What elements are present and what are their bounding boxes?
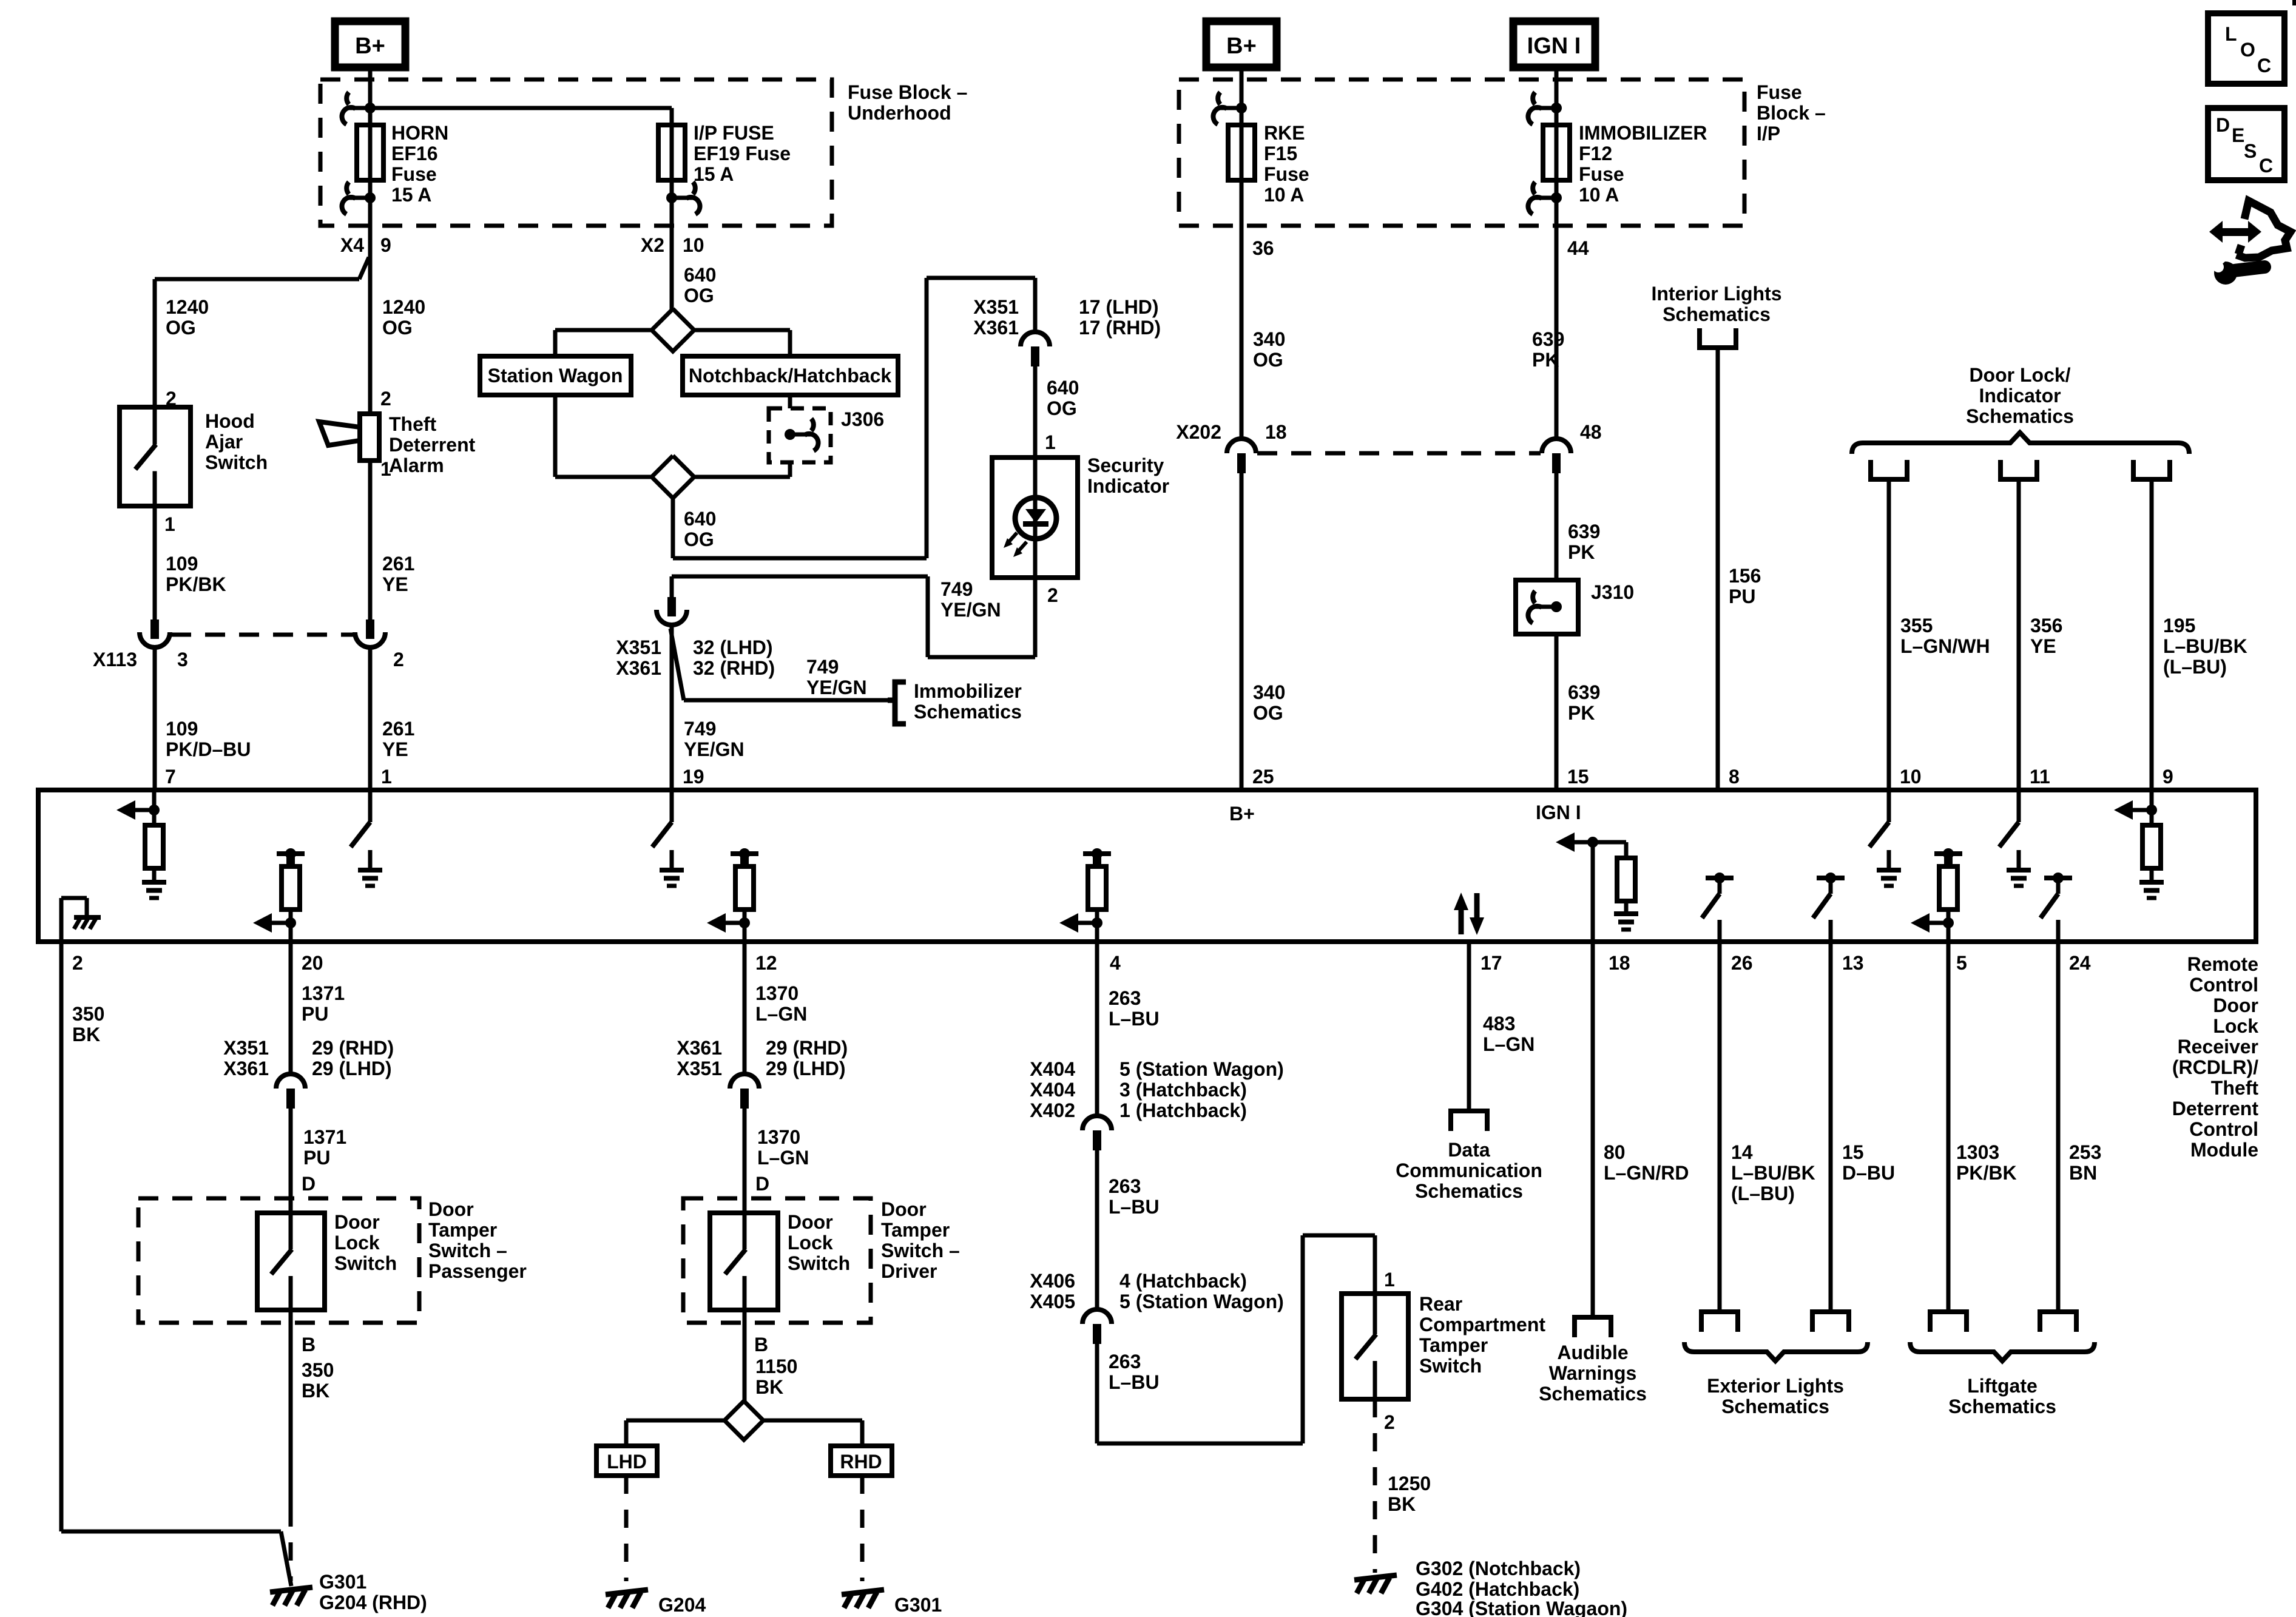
svg-text:Tamper: Tamper	[881, 1219, 950, 1241]
connector hook RKE fuse top	[1213, 92, 1241, 124]
connector X202 pin 48	[1542, 439, 1571, 473]
label Rear Compartment Tamper Switch	[1419, 1293, 1545, 1377]
svg-text:36: 36	[1252, 237, 1274, 259]
svg-text:Remote: Remote	[2187, 953, 2258, 975]
pin 20 module	[302, 952, 323, 974]
label J310	[1591, 581, 1634, 603]
svg-text:Ajar: Ajar	[205, 431, 243, 453]
svg-text:X405: X405	[1030, 1291, 1075, 1312]
svg-text:OG: OG	[684, 528, 714, 550]
pin 1 security indicator	[1045, 431, 1056, 453]
svg-text:X402: X402	[1030, 1099, 1075, 1121]
svg-text:B: B	[754, 1334, 768, 1355]
wire label 356 YE	[2030, 615, 2062, 657]
svg-text:749: 749	[940, 578, 973, 600]
svg-text:1240: 1240	[166, 296, 209, 318]
wire diamond to Notchback box	[694, 330, 790, 356]
svg-text:1371: 1371	[302, 982, 345, 1004]
svg-text:340: 340	[1253, 328, 1285, 350]
wire X202-18 to module pin 25	[1240, 473, 1244, 790]
wire label 639 PK lower	[1568, 681, 1600, 724]
wire label 749 YE/GN at indicator	[940, 578, 1001, 621]
wire X113-3 to module pin 7	[153, 649, 157, 790]
svg-text:11: 11	[2030, 766, 2050, 788]
svg-text:2: 2	[380, 388, 391, 410]
svg-text:48: 48	[1580, 421, 1602, 443]
wire label 263 L-BU middle	[1109, 1175, 1160, 1218]
svg-text:Passenger: Passenger	[428, 1260, 527, 1282]
label Audible Warnings Schematics	[1539, 1342, 1647, 1405]
wire label 1240 OG right	[382, 296, 425, 339]
svg-text:Lock: Lock	[788, 1232, 833, 1254]
svg-text:20: 20	[302, 952, 323, 974]
connector X404/X402	[1082, 1116, 1112, 1150]
pin 26 module	[1731, 952, 1753, 974]
wire label 350 BK passenger	[302, 1359, 334, 1402]
svg-text:L–GN: L–GN	[1483, 1033, 1535, 1055]
dashed connector line X202	[1257, 451, 1541, 456]
svg-text:X113: X113	[93, 649, 137, 670]
wire label 15 D-BU	[1842, 1141, 1895, 1184]
pin 2 security indicator	[1047, 584, 1058, 606]
wire label 640 OG at indicator	[1047, 377, 1079, 419]
wire to module pin 11	[2017, 482, 2021, 790]
wire pin 20 down	[289, 942, 293, 1074]
svg-text:7: 7	[165, 766, 176, 788]
svg-text:14: 14	[1731, 1141, 1753, 1163]
security indicator box	[992, 457, 1078, 578]
junction dot at HORN fuse top	[365, 103, 376, 113]
wire door lock switch passenger down	[289, 1310, 293, 1508]
svg-text:9: 9	[380, 234, 391, 256]
svg-text:Schematics: Schematics	[914, 701, 1022, 723]
svg-text:X4: X4	[340, 234, 364, 256]
wire security indicator to X351-32	[672, 576, 1035, 657]
connector hook below I/P fuse	[672, 182, 700, 214]
label B+ inside module	[1229, 803, 1255, 825]
svg-text:Alarm: Alarm	[389, 454, 444, 476]
DESC reference box	[2208, 108, 2284, 180]
module internal pin 11 switch	[1999, 790, 2031, 886]
svg-text:Control: Control	[2189, 1118, 2258, 1140]
wire label 340 OG upper	[1253, 328, 1285, 371]
pin label X2 10	[641, 234, 704, 256]
svg-text:Indicator: Indicator	[1979, 385, 2061, 407]
wire B+ to junction	[368, 67, 373, 125]
pin 12 module	[755, 952, 777, 974]
pointer cup pin 5	[1930, 1312, 1967, 1332]
svg-text:1: 1	[1045, 431, 1056, 453]
label Liftgate Schematics	[1948, 1375, 2056, 1417]
module internal pin 10 switch	[1869, 790, 1901, 886]
svg-text:Schematics: Schematics	[1415, 1180, 1523, 1202]
svg-text:5 (Station Wagon): 5 (Station Wagon)	[1119, 1058, 1284, 1080]
label X202	[1176, 421, 1221, 443]
svg-text:B+: B+	[355, 33, 385, 59]
wire label 109 PK/D-BU	[166, 718, 251, 760]
wire X113-2 to module pin 1	[368, 649, 373, 790]
svg-text:Deterrent: Deterrent	[2172, 1098, 2259, 1119]
wire label 350 BK pin2	[72, 1003, 104, 1045]
svg-text:263: 263	[1109, 987, 1141, 1009]
svg-text:X351: X351	[677, 1058, 722, 1079]
svg-text:OG: OG	[684, 285, 714, 306]
wire label 195 L-BU/BK (L-BU)	[2163, 615, 2247, 678]
svg-text:3: 3	[177, 649, 188, 670]
svg-text:18: 18	[1609, 952, 1630, 974]
svg-text:L–BU: L–BU	[1109, 1196, 1160, 1218]
wire label 156 PU	[1729, 565, 1761, 607]
svg-text:G304 (Station Wagaon): G304 (Station Wagaon)	[1416, 1598, 1627, 1617]
svg-text:Tamper: Tamper	[428, 1219, 497, 1241]
svg-text:32 (LHD): 32 (LHD)	[693, 636, 773, 658]
pin 9 module	[2163, 766, 2173, 788]
wire label 640 OG	[684, 264, 716, 306]
ground G302 G402 G304	[1354, 1575, 1397, 1593]
label X351 X361 at pin 32	[616, 636, 661, 679]
svg-text:1: 1	[164, 513, 175, 535]
label I/P FUSE EF19 Fuse 15 A	[694, 122, 791, 185]
svg-text:X351: X351	[223, 1037, 269, 1059]
connector hook at HORN fuse top	[342, 92, 370, 124]
pointer cup pin 26	[1701, 1312, 1738, 1332]
svg-text:1303: 1303	[1956, 1141, 1999, 1163]
svg-text:10: 10	[1900, 766, 1922, 788]
svg-text:L–GN: L–GN	[755, 1003, 807, 1025]
module internal pin 12 resistor	[707, 848, 758, 942]
wire IMMOBILIZER fuse to X202-48	[1555, 180, 1559, 439]
svg-text:BN: BN	[2069, 1162, 2097, 1184]
splice diamond LHD RHD	[724, 1401, 763, 1440]
svg-text:Fuse: Fuse	[391, 163, 437, 185]
svg-text:BK: BK	[1388, 1493, 1416, 1515]
svg-text:640: 640	[1047, 377, 1079, 399]
pointer cup audible warnings	[1575, 1317, 1611, 1337]
module internal pin 19 switch	[652, 790, 684, 886]
svg-text:RHD: RHD	[840, 1451, 882, 1473]
svg-text:109: 109	[166, 553, 198, 575]
svg-text:1 (Hatchback): 1 (Hatchback)	[1119, 1099, 1247, 1121]
svg-text:1: 1	[1384, 1269, 1395, 1291]
svg-text:OG: OG	[166, 317, 196, 339]
svg-text:Schematics: Schematics	[1539, 1383, 1647, 1405]
dashed wire RHD to G301	[860, 1476, 865, 1581]
connector X351/X361 pin 32	[657, 597, 687, 625]
junction dot J306	[785, 429, 795, 440]
svg-text:639: 639	[1568, 681, 1600, 703]
svg-text:261: 261	[382, 553, 414, 575]
svg-text:PU: PU	[303, 1147, 330, 1169]
wire diamond to RHD box	[763, 1420, 862, 1446]
door tamper switch passenger dashed box	[138, 1198, 419, 1323]
wire pin 13 down	[1829, 942, 1833, 1312]
pin label X4 9	[340, 234, 391, 256]
wire X351-32 to module pin 19	[670, 627, 674, 790]
label Fuse Block - I/P	[1757, 81, 1826, 144]
svg-text:12: 12	[755, 952, 777, 974]
svg-text:Fuse Block –: Fuse Block –	[848, 81, 967, 103]
wire junction to I/P fuse	[370, 108, 672, 125]
pin 17 module	[1481, 952, 1502, 974]
svg-text:Block –: Block –	[1757, 102, 1826, 124]
door lock switch passenger	[257, 1213, 325, 1310]
svg-text:5 (Station Wagon): 5 (Station Wagon)	[1119, 1291, 1284, 1312]
svg-text:Audible: Audible	[1557, 1342, 1628, 1363]
svg-text:(L–BU): (L–BU)	[2163, 656, 2227, 678]
branch to immobilizer schematics	[670, 629, 888, 700]
svg-text:Compartment: Compartment	[1419, 1314, 1545, 1335]
svg-text:OG: OG	[1253, 349, 1283, 371]
branch box Notchback/Hatchback	[683, 356, 898, 395]
svg-text:X404: X404	[1030, 1079, 1075, 1101]
svg-text:Schematics: Schematics	[1948, 1396, 2056, 1417]
connector hook J306	[790, 419, 819, 451]
svg-text:X361: X361	[973, 317, 1019, 339]
module internal pin 9 arrow resistor ground	[2114, 790, 2164, 898]
svg-text:2: 2	[1384, 1411, 1395, 1433]
svg-text:Door Lock/: Door Lock/	[1969, 364, 2070, 386]
connector X361/X351 pin 29 driver	[730, 1074, 759, 1109]
svg-text:15 A: 15 A	[391, 184, 431, 206]
svg-text:Door: Door	[2213, 994, 2258, 1016]
wire J310 to module pin 15	[1555, 634, 1559, 790]
label J306	[841, 408, 884, 430]
module internal pin 26 blade	[1702, 873, 1734, 942]
wire X2-10 to diamond	[670, 198, 674, 311]
connector X351/X361 pin 17	[1021, 332, 1050, 366]
svg-text:(L–BU): (L–BU)	[1731, 1183, 1795, 1204]
pin 1 hood ajar switch	[164, 513, 175, 535]
svg-text:80: 80	[1604, 1141, 1626, 1163]
wire label 263 L-BU lower	[1109, 1351, 1160, 1393]
label 29 RHD LHD passenger	[312, 1037, 394, 1079]
svg-text:YE/GN: YE/GN	[806, 677, 867, 698]
wire Notchback to J306	[788, 395, 792, 408]
svg-text:X406: X406	[1030, 1270, 1075, 1292]
label Data Communication Schematics	[1396, 1139, 1542, 1202]
wire door lock switch driver to diamond	[743, 1310, 747, 1402]
pin 18 X202	[1265, 421, 1287, 443]
LOC reference box	[2208, 13, 2284, 84]
junction dot below HORN fuse	[365, 192, 376, 203]
junction dot RKE fuse top	[1236, 103, 1247, 113]
svg-text:PK: PK	[1568, 541, 1595, 563]
svg-text:1370: 1370	[757, 1126, 800, 1148]
pin 2 X113	[393, 649, 404, 670]
svg-text:L–BU: L–BU	[1109, 1008, 1160, 1030]
pin 13 module	[1842, 952, 1864, 974]
svg-text:Door: Door	[334, 1211, 380, 1233]
wire label 253 BN	[2069, 1141, 2101, 1184]
svg-text:X2: X2	[641, 234, 664, 256]
svg-text:(RCDLR)/: (RCDLR)/	[2172, 1056, 2258, 1078]
wire diamond to LHD box	[626, 1420, 724, 1446]
svg-text:X351: X351	[616, 636, 661, 658]
svg-text:1240: 1240	[382, 296, 425, 318]
label G302 G402 G304	[1416, 1558, 1627, 1617]
label G301 G204 (RHD)	[319, 1571, 427, 1613]
wire label 355 L-GN/WH	[1900, 615, 1990, 657]
power symbol B+ (battery feed, fuse block underhood)	[335, 21, 405, 67]
wire label 483 L-GN	[1483, 1013, 1535, 1055]
svg-text:G204 (RHD): G204 (RHD)	[319, 1592, 427, 1613]
label X113	[93, 649, 137, 670]
svg-text:X202: X202	[1176, 421, 1221, 443]
wire label 109 PK/BK	[166, 553, 226, 595]
svg-text:1371: 1371	[303, 1126, 346, 1148]
svg-text:Underhood: Underhood	[848, 102, 951, 124]
splice J306 dashed box	[769, 408, 831, 462]
svg-text:350: 350	[302, 1359, 334, 1381]
junction dot below I/P fuse	[666, 192, 677, 203]
svg-text:639: 639	[1532, 328, 1564, 350]
svg-text:5: 5	[1956, 952, 1967, 974]
svg-text:G204: G204	[658, 1594, 706, 1616]
label Hood Ajar Switch	[205, 410, 268, 473]
svg-text:Indicator: Indicator	[1087, 475, 1169, 497]
wire Station Wagon to diamond lower	[555, 395, 652, 477]
svg-text:X351: X351	[973, 296, 1019, 318]
wire RKE fuse to X202-18	[1240, 180, 1244, 439]
module internal pin 1 switch	[351, 790, 382, 886]
svg-text:Rear: Rear	[1419, 1293, 1462, 1315]
label HORN EF16 Fuse 15 A	[391, 122, 448, 206]
pin 1 rear tamper switch	[1384, 1269, 1395, 1291]
svg-text:1150: 1150	[755, 1355, 797, 1377]
svg-text:Fuse: Fuse	[1264, 163, 1309, 185]
module internal pin 4 resistor	[1059, 848, 1111, 942]
wire label 749 YE/GN immobilizer	[806, 656, 867, 698]
label 29 RHD LHD driver	[766, 1037, 848, 1079]
fuse IMMOBILIZER F12 10A	[1543, 125, 1570, 180]
svg-text:1: 1	[381, 766, 392, 788]
fuse RKE F15 10A	[1228, 125, 1255, 180]
label Theft Deterrent Alarm	[389, 413, 476, 476]
wire label 749 YE/GN lower	[684, 718, 745, 760]
svg-text:263: 263	[1109, 1351, 1141, 1372]
wire pin 17 down	[1467, 942, 1471, 1111]
wire pin 24 down	[2056, 942, 2061, 1312]
svg-text:44: 44	[1567, 237, 1589, 259]
svg-text:IGN I: IGN I	[1527, 33, 1581, 59]
wire label 1370 L-GN upper	[755, 982, 807, 1025]
hand pointer icon	[2237, 201, 2291, 258]
label G204	[658, 1594, 706, 1616]
svg-text:OG: OG	[382, 317, 413, 339]
svg-text:355: 355	[1900, 615, 1933, 636]
wire connector to security indicator	[1033, 366, 1038, 457]
pin D passenger	[302, 1173, 316, 1195]
svg-text:19: 19	[683, 766, 704, 788]
svg-text:YE: YE	[382, 738, 408, 760]
svg-text:Fuse: Fuse	[1579, 163, 1624, 185]
svg-text:8: 8	[1729, 766, 1740, 788]
connector hook IMMOBILIZER fuse bottom	[1528, 182, 1556, 214]
svg-text:29 (RHD): 29 (RHD)	[766, 1037, 848, 1059]
dashed wire to G302	[1373, 1399, 1377, 1573]
svg-text:17: 17	[1481, 952, 1502, 974]
svg-text:B+: B+	[1229, 803, 1255, 825]
svg-text:D: D	[2216, 114, 2230, 136]
svg-text:G301: G301	[319, 1571, 366, 1593]
pin 5 module	[1956, 952, 1967, 974]
svg-text:PK: PK	[1532, 349, 1559, 371]
label Remote Control Door Lock Receiver RCDLR Theft Deterrent Control Module	[2172, 953, 2259, 1161]
module internal data arrows	[1454, 893, 1484, 935]
svg-text:340: 340	[1253, 681, 1285, 703]
splice diamond lower	[652, 456, 694, 498]
wire connector to door lock switch driver	[743, 1109, 747, 1213]
svg-text:C: C	[2257, 55, 2271, 76]
label Door Lock Indicator Schematics	[1966, 364, 2074, 427]
svg-text:Door: Door	[788, 1211, 833, 1233]
brace door lock indicator	[1852, 433, 2189, 454]
svg-text:L–BU/BK: L–BU/BK	[2163, 635, 2247, 657]
svg-text:261: 261	[382, 718, 414, 740]
svg-text:749: 749	[806, 656, 839, 678]
svg-text:Theft: Theft	[2211, 1077, 2259, 1099]
svg-text:D: D	[302, 1173, 316, 1195]
wire interior lights to module pin 8	[1716, 350, 1720, 790]
svg-text:156: 156	[1729, 565, 1761, 587]
label X361 X351 driver	[677, 1037, 722, 1079]
connector X113 pin 2	[355, 619, 385, 647]
svg-text:2: 2	[393, 649, 404, 670]
svg-text:9: 9	[2163, 766, 2173, 788]
wire X202-48 to J310	[1555, 473, 1559, 580]
svg-text:3 (Hatchback): 3 (Hatchback)	[1119, 1079, 1247, 1101]
wire label 340 OG lower	[1253, 681, 1285, 724]
svg-text:Fuse: Fuse	[1757, 81, 1802, 103]
svg-text:L: L	[2225, 23, 2237, 45]
svg-text:D–BU: D–BU	[1842, 1162, 1895, 1184]
svg-text:Data: Data	[1448, 1139, 1490, 1161]
label Door Tamper Switch Driver	[881, 1198, 960, 1282]
label Fuse Block - Underhood	[848, 81, 967, 124]
svg-text:18: 18	[1265, 421, 1287, 443]
svg-text:Deterrent: Deterrent	[389, 434, 476, 456]
svg-text:Switch: Switch	[1419, 1355, 1482, 1377]
page corner mark	[2292, 0, 2296, 5]
svg-text:Station Wagon: Station Wagon	[488, 365, 623, 387]
pointer cup data communication	[1451, 1111, 1487, 1131]
svg-text:L–BU: L–BU	[1109, 1371, 1160, 1393]
label 4 Hatchback 5 Station Wagon	[1119, 1270, 1284, 1312]
pin 24 module	[2069, 952, 2091, 974]
svg-text:LHD: LHD	[607, 1451, 647, 1473]
wire X4-9 down	[368, 198, 373, 414]
svg-text:B+: B+	[1226, 33, 1257, 59]
svg-text:29 (LHD): 29 (LHD)	[312, 1058, 392, 1079]
svg-text:PK/BK: PK/BK	[166, 573, 226, 595]
svg-text:PU: PU	[302, 1003, 328, 1025]
fuse I/P FUSE EF19 15A	[658, 125, 685, 180]
door lock switch driver	[710, 1213, 778, 1310]
pin 11 module	[2030, 766, 2050, 788]
rear compartment tamper switch	[1342, 1294, 1408, 1399]
svg-text:G302 (Notchback): G302 (Notchback)	[1416, 1558, 1581, 1579]
dashed wire to G301	[289, 1508, 293, 1581]
connector X351/X361 pin 29 passenger	[276, 1074, 305, 1109]
svg-text:J306: J306	[841, 408, 884, 430]
module internal pin 13 blade	[1813, 873, 1845, 942]
pin 4 module	[1110, 952, 1121, 974]
connector hook J310	[1528, 591, 1556, 623]
junction dot J310	[1551, 601, 1562, 612]
connector hook below HORN fuse	[342, 182, 370, 214]
wire pin 5 down	[1947, 942, 1951, 1312]
svg-text:B: B	[302, 1334, 316, 1355]
